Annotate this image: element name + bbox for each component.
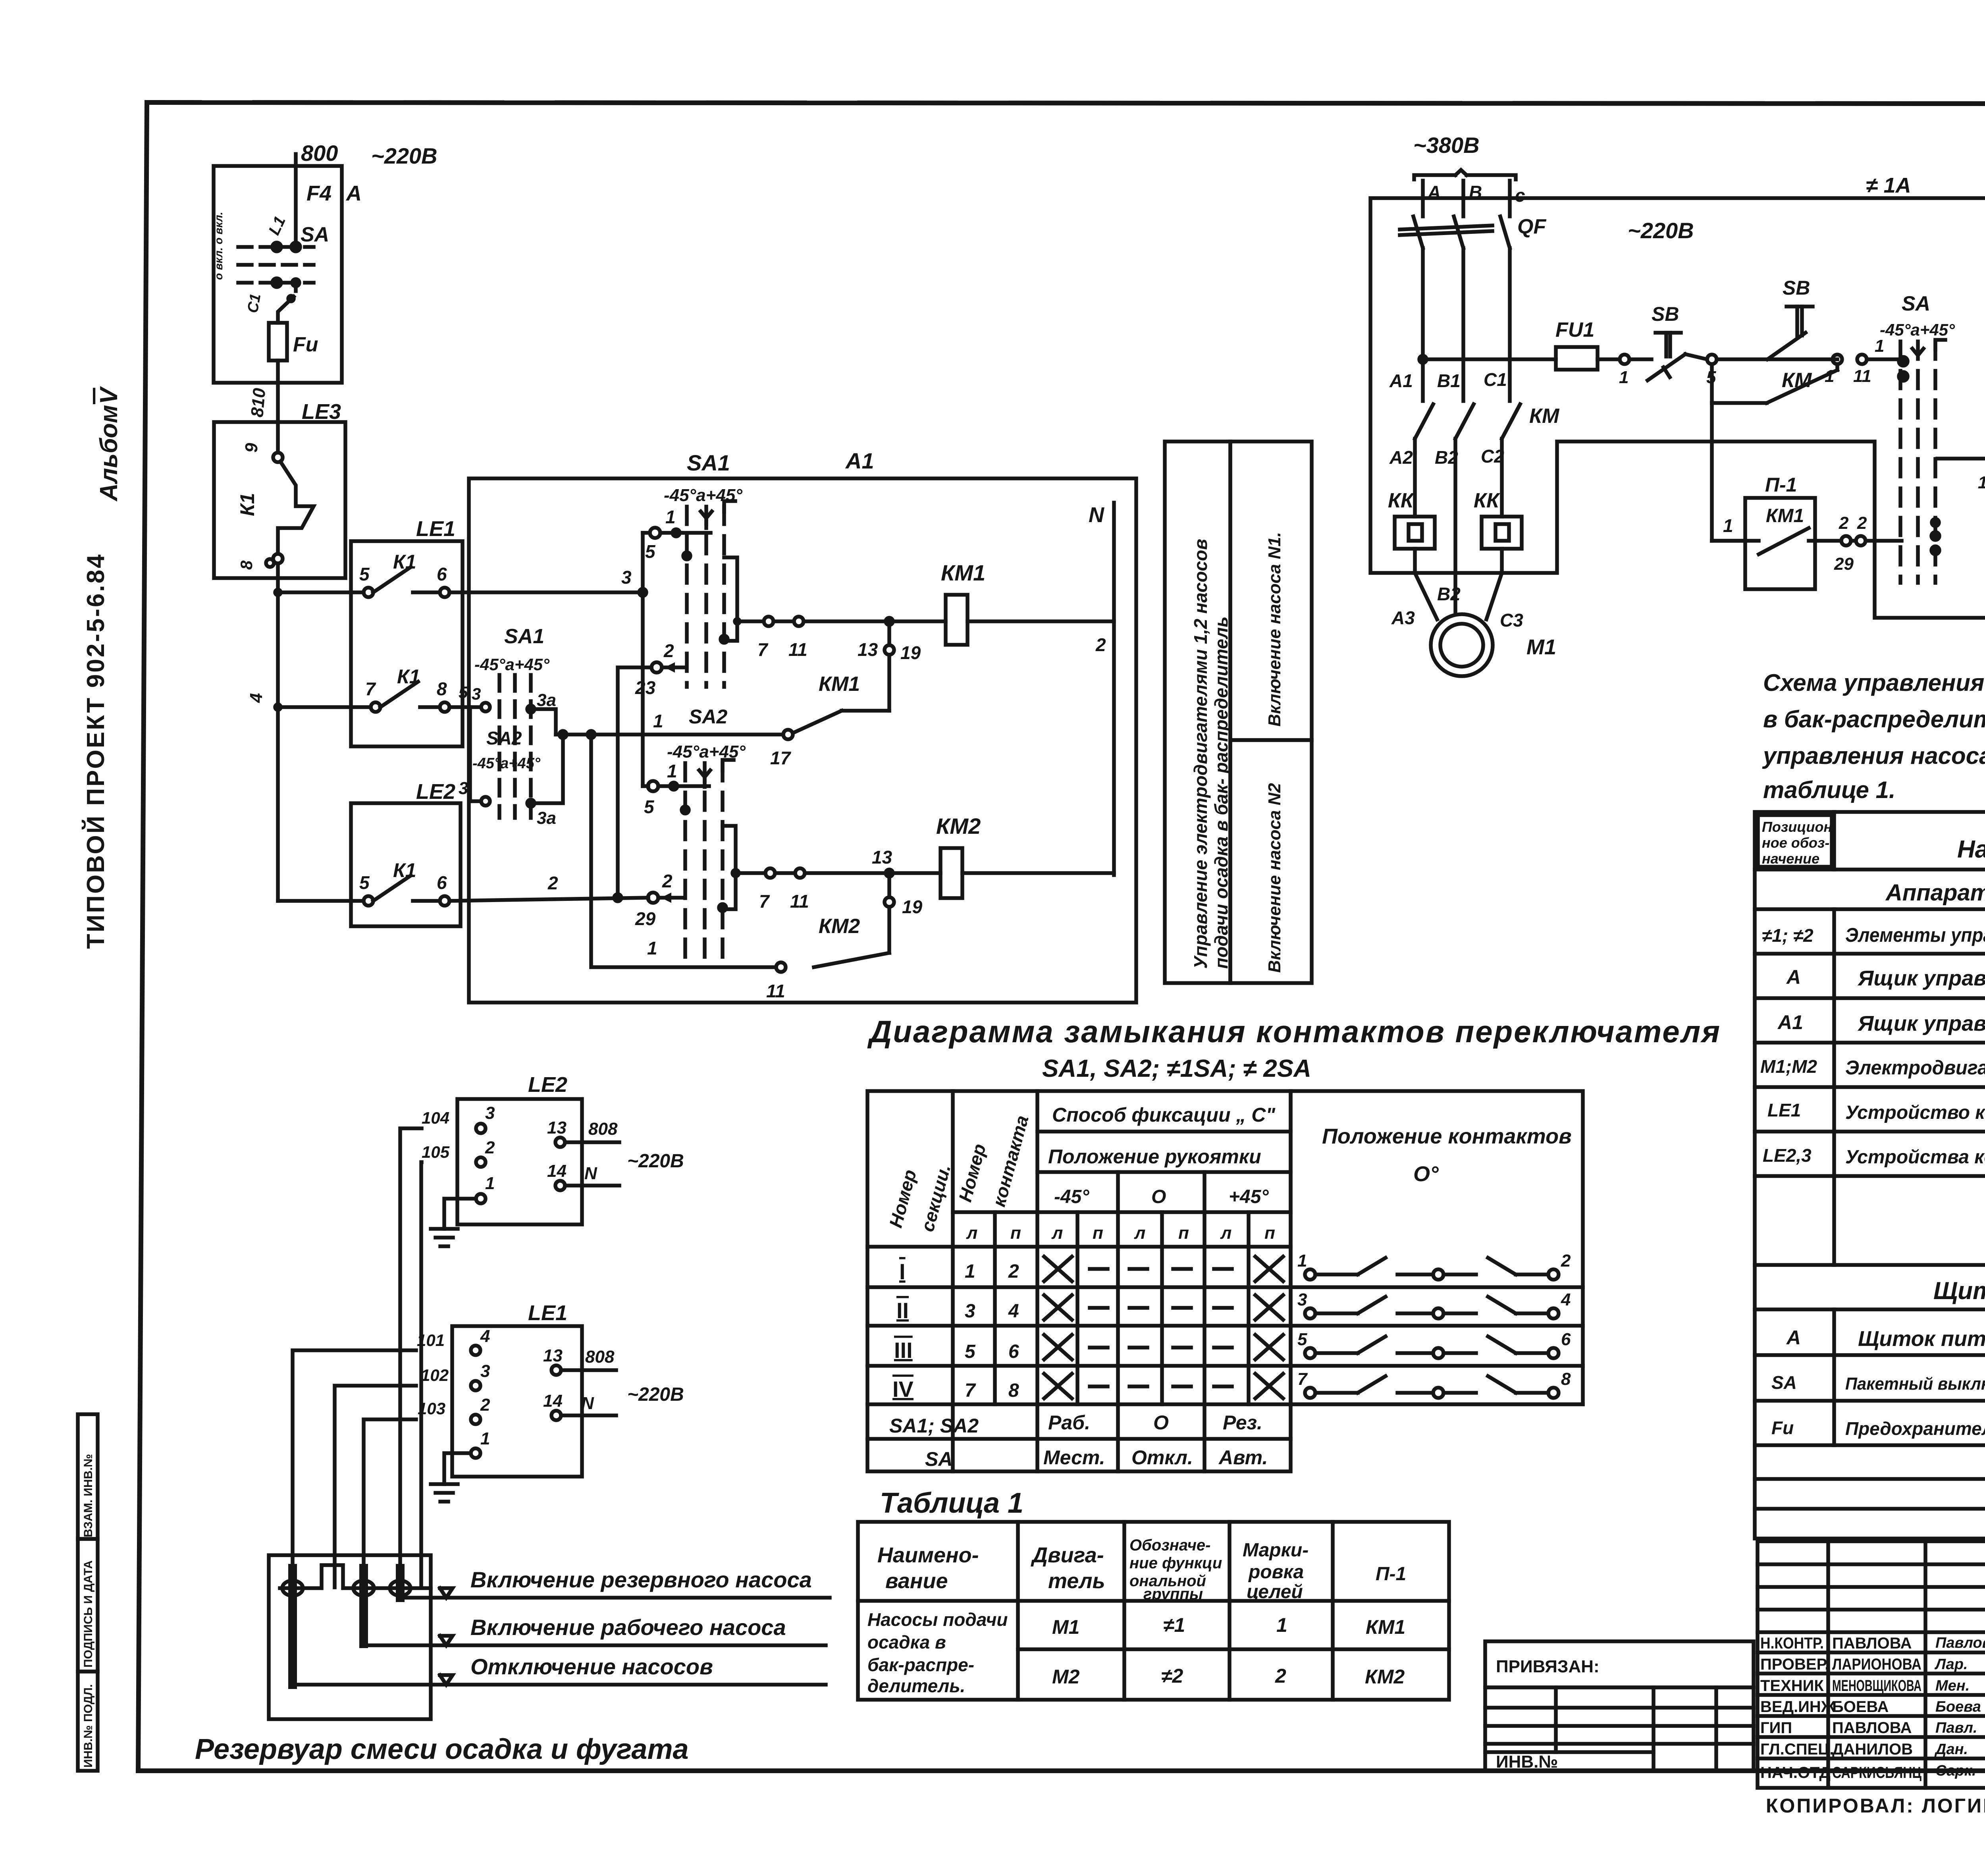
- svg-text:11: 11: [766, 981, 785, 1001]
- svg-text:~380В: ~380В: [1413, 133, 1480, 158]
- margin text: Альбом V: [95, 386, 123, 502]
- heater element KK phase A: [1395, 517, 1435, 549]
- svg-text:ние функци: ние функци: [1129, 1554, 1222, 1572]
- SA2 wiper bracket lower: [723, 826, 739, 909]
- svg-text:2: 2: [1275, 1665, 1286, 1687]
- svg-text:LЕ2,3: LЕ2,3: [1763, 1145, 1812, 1166]
- svg-text:105: 105: [422, 1143, 450, 1161]
- svg-text:ПАВЛОВА: ПАВЛОВА: [1832, 1635, 1912, 1652]
- svg-text:3: 3: [1297, 1290, 1307, 1309]
- svg-text:А: А: [1786, 1327, 1801, 1349]
- svg-text:-45°а+45°: -45°а+45°: [472, 755, 541, 772]
- svg-text:ровка: ровка: [1248, 1562, 1304, 1583]
- svg-text:13: 13: [872, 847, 892, 868]
- svg-text:Павл.: Павл.: [1935, 1720, 1977, 1736]
- svg-text:SA2: SA2: [486, 728, 522, 748]
- KM2 auxiliary self-hold contact: [588, 731, 923, 1001]
- svg-text:SА: SА: [1771, 1372, 1797, 1393]
- svg-text:8: 8: [437, 679, 447, 699]
- svg-text:19: 19: [902, 897, 923, 917]
- svg-text:1: 1: [1723, 515, 1733, 536]
- svg-text:ГИП: ГИП: [1760, 1719, 1792, 1737]
- svg-text:14: 14: [547, 1161, 567, 1181]
- sensor wires down to tank: [293, 1128, 422, 1587]
- svg-text:Предохранитель ПТ-10 пл.вставк: Предохранитель ПТ-10 пл.вставка 1А ДН 80…: [1845, 1418, 1985, 1439]
- line 2 to terminal 29: [614, 871, 684, 929]
- svg-text:2: 2: [485, 1138, 495, 1157]
- margin stamp strip: Взам.инв.№ / Подпись и дата / Инв.№ подл.: [78, 1414, 98, 1771]
- svg-text:КМ2: КМ2: [1365, 1666, 1405, 1688]
- svg-text:1: 1: [665, 507, 676, 527]
- table 1 text: [867, 1537, 1406, 1696]
- wire label 810: [247, 387, 269, 418]
- contactor coil KM1: [941, 560, 1114, 655]
- svg-text:А1: А1: [1777, 1011, 1803, 1033]
- svg-text:SA: SA: [1902, 292, 1930, 315]
- svg-text:N: N: [1089, 503, 1104, 527]
- svg-text:с: с: [1515, 185, 1525, 206]
- svg-text:13: 13: [1978, 473, 1985, 492]
- svg-text:БОЕВА: БОЕВА: [1832, 1698, 1889, 1716]
- svg-text:КМ2: КМ2: [819, 915, 860, 938]
- svg-text:Альбом: Альбом: [95, 405, 123, 502]
- svg-text:1: 1: [653, 711, 663, 731]
- equipment list table: [1755, 812, 1985, 1539]
- svg-text:SА: SА: [925, 1448, 952, 1470]
- svg-text:Схема управления насосом 2: Схема управления насосом 2 подачи осадка: [1763, 669, 1985, 696]
- svg-text:7: 7: [757, 639, 769, 660]
- svg-text:7: 7: [759, 891, 770, 912]
- svg-text:29: 29: [635, 908, 656, 929]
- svg-text:А: А: [345, 181, 362, 205]
- svg-text:3: 3: [459, 779, 468, 798]
- function cell: pump N1 on: [1230, 442, 1312, 740]
- wire 3a lower to line1: [531, 735, 563, 803]
- svg-text:С1: С1: [245, 292, 264, 314]
- svg-text:6: 6: [1008, 1341, 1019, 1362]
- contact table footer rows: [889, 1411, 1268, 1470]
- svg-text:М1: М1: [1052, 1616, 1079, 1638]
- svg-text:N: N: [581, 1394, 594, 1413]
- svg-text:п: п: [1010, 1223, 1021, 1243]
- svg-text:SА1; SА2: SА1; SА2: [889, 1415, 979, 1437]
- svg-text:ПРОВЕР.: ПРОВЕР.: [1760, 1656, 1829, 1673]
- svg-text:КМ1: КМ1: [1366, 1616, 1405, 1638]
- svg-text:11: 11: [788, 639, 807, 660]
- level annotation: pumps off: [297, 1654, 826, 1685]
- equipment table rows: [1760, 924, 1985, 1439]
- svg-text:подачи осадка в бак- распредел: подачи осадка в бак- распределитель: [1211, 617, 1231, 969]
- contactor coil KM2: [936, 814, 1114, 898]
- fuse Fu: [269, 296, 318, 422]
- function cell: pump N2 on: [1230, 740, 1312, 983]
- svg-text:К1: К1: [393, 859, 416, 881]
- wire to LE1 contact 7: [278, 705, 371, 709]
- svg-text:Включение рабочего насоса: Включение рабочего насоса: [470, 1615, 786, 1640]
- svg-text:3: 3: [621, 567, 632, 588]
- svg-text:Электродвигатель типа 4А100L4;: Электродвигатель типа 4А100L4; 4кВт; ~38…: [1845, 1057, 1985, 1079]
- svg-text:Н.КОНТР.: Н.КОНТР.: [1760, 1635, 1824, 1652]
- svg-text:6: 6: [437, 564, 447, 584]
- svg-text:8: 8: [1008, 1380, 1019, 1401]
- contact table body rows I-IV: [892, 1259, 1019, 1402]
- svg-text:Откл.: Откл.: [1131, 1446, 1193, 1469]
- thermal contacts and coil KM: [1937, 391, 1985, 492]
- svg-text:1: 1: [965, 1261, 975, 1282]
- svg-text:бак-распре-: бак-распре-: [867, 1654, 974, 1675]
- svg-text:5: 5: [359, 564, 370, 584]
- svg-text:4: 4: [247, 693, 266, 703]
- selector SA1 section (upper) in A1: [664, 486, 742, 687]
- svg-text:13: 13: [547, 1118, 567, 1138]
- svg-text:LЕ1: LЕ1: [1767, 1100, 1801, 1120]
- svg-text:SB: SB: [1783, 277, 1810, 299]
- heater element KK phase C: [1482, 517, 1522, 549]
- svg-text:6: 6: [1561, 1330, 1571, 1349]
- svg-text:А: А: [1786, 966, 1801, 988]
- svg-text:~220В: ~220В: [371, 143, 437, 168]
- svg-text:5: 5: [359, 872, 370, 893]
- level annotation: working pump on: [368, 1615, 826, 1645]
- wire LE2-6 to A1 (line 2): [449, 873, 648, 901]
- svg-text:+45°: +45°: [1229, 1186, 1269, 1207]
- svg-text:Элементы управления электродви: Элементы управления электродвигателями М…: [1845, 924, 1985, 946]
- svg-text:Управление электродвигателями: Управление электродвигателями 1,2 насосо…: [1190, 539, 1211, 969]
- svg-text:~220В: ~220В: [627, 1151, 684, 1172]
- svg-text:1: 1: [485, 1174, 495, 1193]
- stop button SB: [1619, 303, 1707, 387]
- svg-text:~220В: ~220В: [627, 1384, 684, 1405]
- svg-text:SA1: SA1: [504, 625, 544, 648]
- motor M1: [1391, 573, 1556, 676]
- selector SA2 section (lower) in A1: [667, 742, 746, 960]
- svg-text:ВЕД.ИНЖ: ВЕД.ИНЖ: [1760, 1698, 1836, 1716]
- relay contact K1 in LE3: [236, 422, 314, 570]
- svg-text:3а: 3а: [537, 808, 556, 828]
- KM2 branch contacts 7-11-13: [736, 847, 940, 912]
- switch position diagrams: [1297, 1251, 1571, 1398]
- svg-text:о вкл. о вкл.: о вкл. о вкл.: [212, 212, 225, 280]
- svg-text:ДАНИЛОВ: ДАНИЛОВ: [1832, 1741, 1913, 1758]
- svg-text:104: 104: [422, 1109, 449, 1127]
- svg-text:13: 13: [543, 1346, 563, 1365]
- svg-text:2: 2: [1095, 634, 1106, 655]
- svg-text:3: 3: [472, 684, 481, 703]
- svg-text:Пакетный выключатель ПВ2-10У33: Пакетный выключатель ПВ2-10У330 ОСТ16 0.…: [1845, 1374, 1985, 1394]
- svg-text:Авт.: Авт.: [1218, 1446, 1268, 1469]
- svg-text:9: 9: [242, 443, 261, 453]
- svg-text:7: 7: [365, 679, 376, 699]
- svg-text:11: 11: [1853, 366, 1871, 386]
- svg-text:4: 4: [1561, 1290, 1571, 1309]
- level sensor box LE2 (lower scheme): [422, 1073, 684, 1224]
- box A (ЭЩПК panel): [212, 166, 362, 383]
- unit A enclosure (stepped): [1370, 174, 1985, 618]
- svg-text:N: N: [584, 1164, 597, 1183]
- tank caption: [195, 1733, 689, 1765]
- svg-text:Положение рукоятки: Положение рукоятки: [1048, 1145, 1261, 1168]
- svg-text:2: 2: [480, 1395, 490, 1415]
- fuse FU1: [1555, 318, 1620, 370]
- svg-text:ИНВ.№: ИНВ.№: [1496, 1752, 1558, 1772]
- svg-text:п: п: [1093, 1223, 1103, 1243]
- svg-text:Дан.: Дан.: [1934, 1741, 1968, 1758]
- svg-text:1: 1: [1825, 366, 1834, 386]
- svg-text:Ящик управления ЯУ5113-03А3: Ящик управления ЯУ5113-03А3Р: [1857, 966, 1985, 990]
- SA2 terminal 5: [643, 761, 709, 817]
- svg-text:П-1: П-1: [1376, 1564, 1406, 1585]
- svg-text:3: 3: [485, 1103, 495, 1123]
- svg-text:ное обоз-: ное обоз-: [1762, 835, 1829, 851]
- svg-text:6: 6: [437, 872, 447, 893]
- svg-text:LE1: LE1: [416, 517, 455, 541]
- svg-text:Щиток питания ЭЩПК-5: Щиток питания ЭЩПК-5: [1858, 1327, 1985, 1351]
- wire LE1-6 to A1 (line 3): [449, 567, 643, 592]
- svg-text:КМ2: КМ2: [936, 814, 981, 839]
- SA1 terminal 1/5: [645, 507, 711, 562]
- svg-text:Боева: Боева: [1935, 1699, 1981, 1715]
- svg-text:1: 1: [480, 1429, 490, 1448]
- svg-text:17: 17: [770, 748, 792, 768]
- svg-text:LЕ2: LЕ2: [528, 1073, 567, 1097]
- svg-text:810: 810: [247, 387, 269, 418]
- svg-text:КМ1: КМ1: [941, 560, 985, 585]
- svg-text:Рез.: Рез.: [1223, 1411, 1262, 1434]
- svg-text:1: 1: [667, 761, 677, 781]
- svg-text:НАЧ.ОТД: НАЧ.ОТД: [1760, 1764, 1831, 1782]
- svg-text:л: л: [1220, 1223, 1231, 1243]
- box LE1: [351, 517, 463, 746]
- svg-text:LЕ1: LЕ1: [528, 1301, 567, 1325]
- svg-text:в бак-распределитель аналогич: в бак-распределитель аналогична схеме.: [1763, 706, 1985, 733]
- wire 3a upper to line1: [531, 709, 556, 735]
- contact K1 (5-6) in LE1: [359, 551, 449, 597]
- wire to LE2 contact 5: [278, 899, 364, 903]
- svg-text:осадка в: осадка в: [867, 1632, 946, 1652]
- svg-text:≠2: ≠2: [1161, 1665, 1183, 1687]
- svg-text:М2: М2: [1052, 1666, 1080, 1688]
- svg-text:LE3: LE3: [302, 400, 341, 424]
- svg-text:Включение насоса N2: Включение насоса N2: [1265, 783, 1284, 973]
- contact K1 (5-6) in LE2: [359, 859, 449, 906]
- svg-text:О°: О°: [1413, 1162, 1439, 1186]
- svg-text:1: 1: [1875, 336, 1884, 356]
- selector contact 3-3a upper: [481, 690, 556, 713]
- svg-text:808: 808: [588, 1119, 618, 1139]
- svg-text:ЛАРИОНОВА: ЛАРИОНОВА: [1832, 1656, 1921, 1673]
- svg-text:Включение насоса N1.: Включение насоса N1.: [1265, 532, 1284, 727]
- svg-text:КМ1: КМ1: [819, 673, 860, 696]
- svg-text:V: V: [95, 386, 123, 404]
- svg-text:Наименование: Наименование: [1957, 836, 1985, 863]
- selector bracket to lower contact: [459, 707, 556, 828]
- svg-text:4: 4: [480, 1327, 490, 1346]
- LE1 ground: [431, 1453, 471, 1502]
- svg-text:вание: вание: [885, 1569, 948, 1593]
- svg-text:П-1: П-1: [1765, 474, 1797, 496]
- KM main contacts: [1389, 359, 1560, 468]
- svg-text:800: 800: [301, 141, 338, 166]
- svg-text:Диаграмма замыкания контактов: Диаграмма замыкания контактов переключат…: [867, 1014, 1721, 1049]
- svg-text:целей: целей: [1247, 1581, 1303, 1602]
- svg-text:А1: А1: [1389, 370, 1413, 391]
- wire 800 feed: [296, 141, 437, 245]
- svg-text:КК: КК: [1388, 489, 1415, 512]
- LE2 ground: [431, 1199, 476, 1246]
- svg-text:О: О: [1151, 1186, 1166, 1207]
- svg-text:808: 808: [585, 1347, 615, 1367]
- svg-text:5: 5: [965, 1341, 976, 1362]
- contact closure table grid: [867, 1091, 1583, 1471]
- svg-text:1: 1: [1619, 368, 1628, 387]
- switch SA in box A (dashed pole rows): [238, 243, 314, 314]
- svg-text:В2: В2: [1437, 584, 1461, 604]
- svg-text:п: п: [1178, 1223, 1189, 1243]
- svg-text:19: 19: [900, 642, 921, 663]
- start button SB: [1706, 277, 1837, 387]
- level sensor box LE1 (lower scheme): [417, 1301, 684, 1477]
- box LE3: [214, 400, 345, 578]
- svg-text:2: 2: [1561, 1251, 1571, 1271]
- svg-text:Насосы подачи: Насосы подачи: [867, 1609, 1008, 1630]
- svg-text:Способ фиксации „ С": Способ фиксации „ С": [1052, 1104, 1276, 1126]
- thermal relay heaters KK: [1388, 453, 1522, 615]
- svg-text:КК: КК: [1474, 489, 1500, 512]
- electrodes: [282, 1568, 410, 1685]
- svg-text:Устройства контроля сопротивле: Устройства контроля сопротивления УКС-1-…: [1845, 1147, 1985, 1168]
- svg-text:Устройство контроля сопротивле: Устройство контроля сопротивления УКС 1-…: [1845, 1102, 1985, 1123]
- svg-text:-45°а+45°: -45°а+45°: [474, 655, 550, 674]
- title block main: [1758, 1541, 1985, 1788]
- svg-text:КОПИРОВАЛ: ЛОГИНОВА: КОПИРОВАЛ: ЛОГИНОВА: [1766, 1795, 1985, 1817]
- svg-text:13: 13: [858, 639, 878, 660]
- svg-text:КМ: КМ: [1782, 369, 1812, 392]
- main left vertical wire: [247, 563, 281, 901]
- svg-text:SA1: SA1: [687, 450, 730, 475]
- SA1 wiper bracket upper: [724, 557, 740, 641]
- bottom captions: [1766, 1793, 1985, 1817]
- svg-text:ИНВ.№ ПОДЛ.: ИНВ.№ ПОДЛ.: [82, 1684, 95, 1768]
- svg-text:Ящик управления ЯУ5120-03А2А: Ящик управления ЯУ5120-03А2А: [1857, 1012, 1985, 1035]
- svg-text:LE2: LE2: [416, 780, 455, 804]
- svg-text:ПАВЛОВА: ПАВЛОВА: [1832, 1719, 1912, 1737]
- control box A1: [469, 448, 1136, 1003]
- svg-text:I: I: [899, 1259, 906, 1284]
- svg-text:1: 1: [647, 938, 657, 958]
- svg-text:Мен.: Мен.: [1935, 1677, 1970, 1694]
- svg-text:-45°: -45°: [1054, 1186, 1089, 1207]
- svg-text:-45°а+45°: -45°а+45°: [1880, 320, 1955, 339]
- control bus tap: [1419, 356, 1556, 363]
- svg-text:п: п: [1264, 1223, 1275, 1243]
- neutral line N: [1089, 503, 1114, 875]
- svg-text:ГЛ.СПЕЦ.: ГЛ.СПЕЦ.: [1760, 1741, 1834, 1758]
- svg-text:Позицион: Позицион: [1762, 819, 1832, 835]
- 380V supply label: [1413, 133, 1516, 179]
- svg-text:А1: А1: [845, 448, 874, 473]
- svg-text:11: 11: [790, 891, 809, 912]
- KM1 auxiliary self-hold contact: [770, 621, 921, 768]
- svg-text:К1: К1: [397, 665, 420, 688]
- svg-text:5: 5: [644, 796, 655, 817]
- svg-text:3а: 3а: [537, 690, 556, 710]
- svg-text:3: 3: [965, 1301, 975, 1322]
- contact closure diagram title: [867, 1014, 1721, 1082]
- svg-text:23: 23: [635, 677, 656, 698]
- svg-text:В1: В1: [1437, 370, 1461, 391]
- svg-text:3: 3: [480, 1361, 490, 1381]
- svg-text:Марки-: Марки-: [1243, 1540, 1309, 1561]
- contact K1 (7-8) in LE1: [365, 665, 449, 712]
- svg-text:Таблица 1: Таблица 1: [880, 1487, 1023, 1519]
- function boxes right of A1: [1165, 442, 1312, 983]
- title block signatures: [1760, 1635, 1985, 1782]
- svg-text:Двига-: Двига-: [1031, 1543, 1104, 1567]
- svg-text:SА1, SА2; ≠1SА; ≠ 2SА: SА1, SА2; ≠1SА; ≠ 2SА: [1042, 1055, 1311, 1082]
- margin text: Типовой проект 902-5-6.84: [82, 553, 110, 949]
- svg-text:SA: SA: [301, 223, 329, 246]
- svg-text:М1: М1: [1526, 635, 1556, 659]
- note paragraph: [1762, 669, 1985, 803]
- svg-text:С1: С1: [1484, 369, 1507, 390]
- box LE2: [351, 780, 461, 926]
- wire to LE1 contact 5: [278, 590, 364, 594]
- selector SA1/SA2 left block dashed: [472, 625, 550, 818]
- interposing relay box П-1: [1712, 403, 1902, 589]
- contact table headers: [885, 1104, 1571, 1243]
- svg-text:≠1: ≠1: [1163, 1614, 1185, 1636]
- svg-text:л: л: [1051, 1223, 1063, 1243]
- svg-text:МЕНОВЩИКОВА: МЕНОВЩИКОВА: [1832, 1677, 1921, 1695]
- svg-text:≠1; ≠2: ≠1; ≠2: [1762, 925, 1813, 946]
- svg-text:2: 2: [663, 640, 674, 661]
- function strip: pump motors control: [1165, 442, 1230, 983]
- svg-text:1: 1: [1297, 1251, 1307, 1271]
- selector SA dashed section: [1875, 292, 1955, 583]
- svg-text:ТИПОВОЙ ПРОЕКТ 902-5-6.84: ТИПОВОЙ ПРОЕКТ 902-5-6.84: [82, 553, 110, 949]
- svg-text:7: 7: [965, 1380, 976, 1401]
- black dots on SA dashes: [682, 552, 728, 911]
- svg-text:2: 2: [547, 873, 558, 893]
- privyazan box: [1485, 1641, 1754, 1772]
- svg-text:Щит КИП: Щит КИП: [1933, 1277, 1985, 1305]
- svg-text:IV: IV: [892, 1377, 913, 1402]
- svg-text:2: 2: [1839, 513, 1849, 533]
- svg-text:Сарк.: Сарк.: [1935, 1762, 1976, 1779]
- svg-text:II: II: [896, 1298, 909, 1323]
- svg-text:делитель.: делитель.: [867, 1675, 965, 1696]
- wire LE1-8 to SA1 selector: [449, 683, 481, 707]
- svg-text:Павлова: Павлова: [1935, 1635, 1985, 1651]
- tank (reservoir): [269, 1555, 431, 1719]
- svg-text:Раб.: Раб.: [1048, 1411, 1090, 1434]
- svg-text:КМ1: КМ1: [1766, 505, 1804, 526]
- feed vertical from node 3: [639, 533, 650, 786]
- svg-text:Мест.: Мест.: [1043, 1446, 1105, 1469]
- svg-text:2: 2: [1857, 513, 1867, 533]
- svg-text:4: 4: [1008, 1301, 1019, 1322]
- svg-text:SA2: SA2: [689, 706, 727, 728]
- svg-text:Лар.: Лар.: [1934, 1656, 1968, 1673]
- svg-text:Положение контактов: Положение контактов: [1322, 1124, 1572, 1148]
- circuit breaker QF: [1400, 215, 1546, 401]
- svg-text:5: 5: [459, 683, 468, 702]
- svg-text:8: 8: [237, 560, 256, 570]
- svg-text:Включение резервного насоса: Включение резервного насоса: [470, 1567, 812, 1592]
- svg-text:М1;М2: М1;М2: [1760, 1056, 1817, 1077]
- svg-text:А3: А3: [1391, 607, 1415, 628]
- svg-text:Обозначе-: Обозначе-: [1129, 1537, 1211, 1554]
